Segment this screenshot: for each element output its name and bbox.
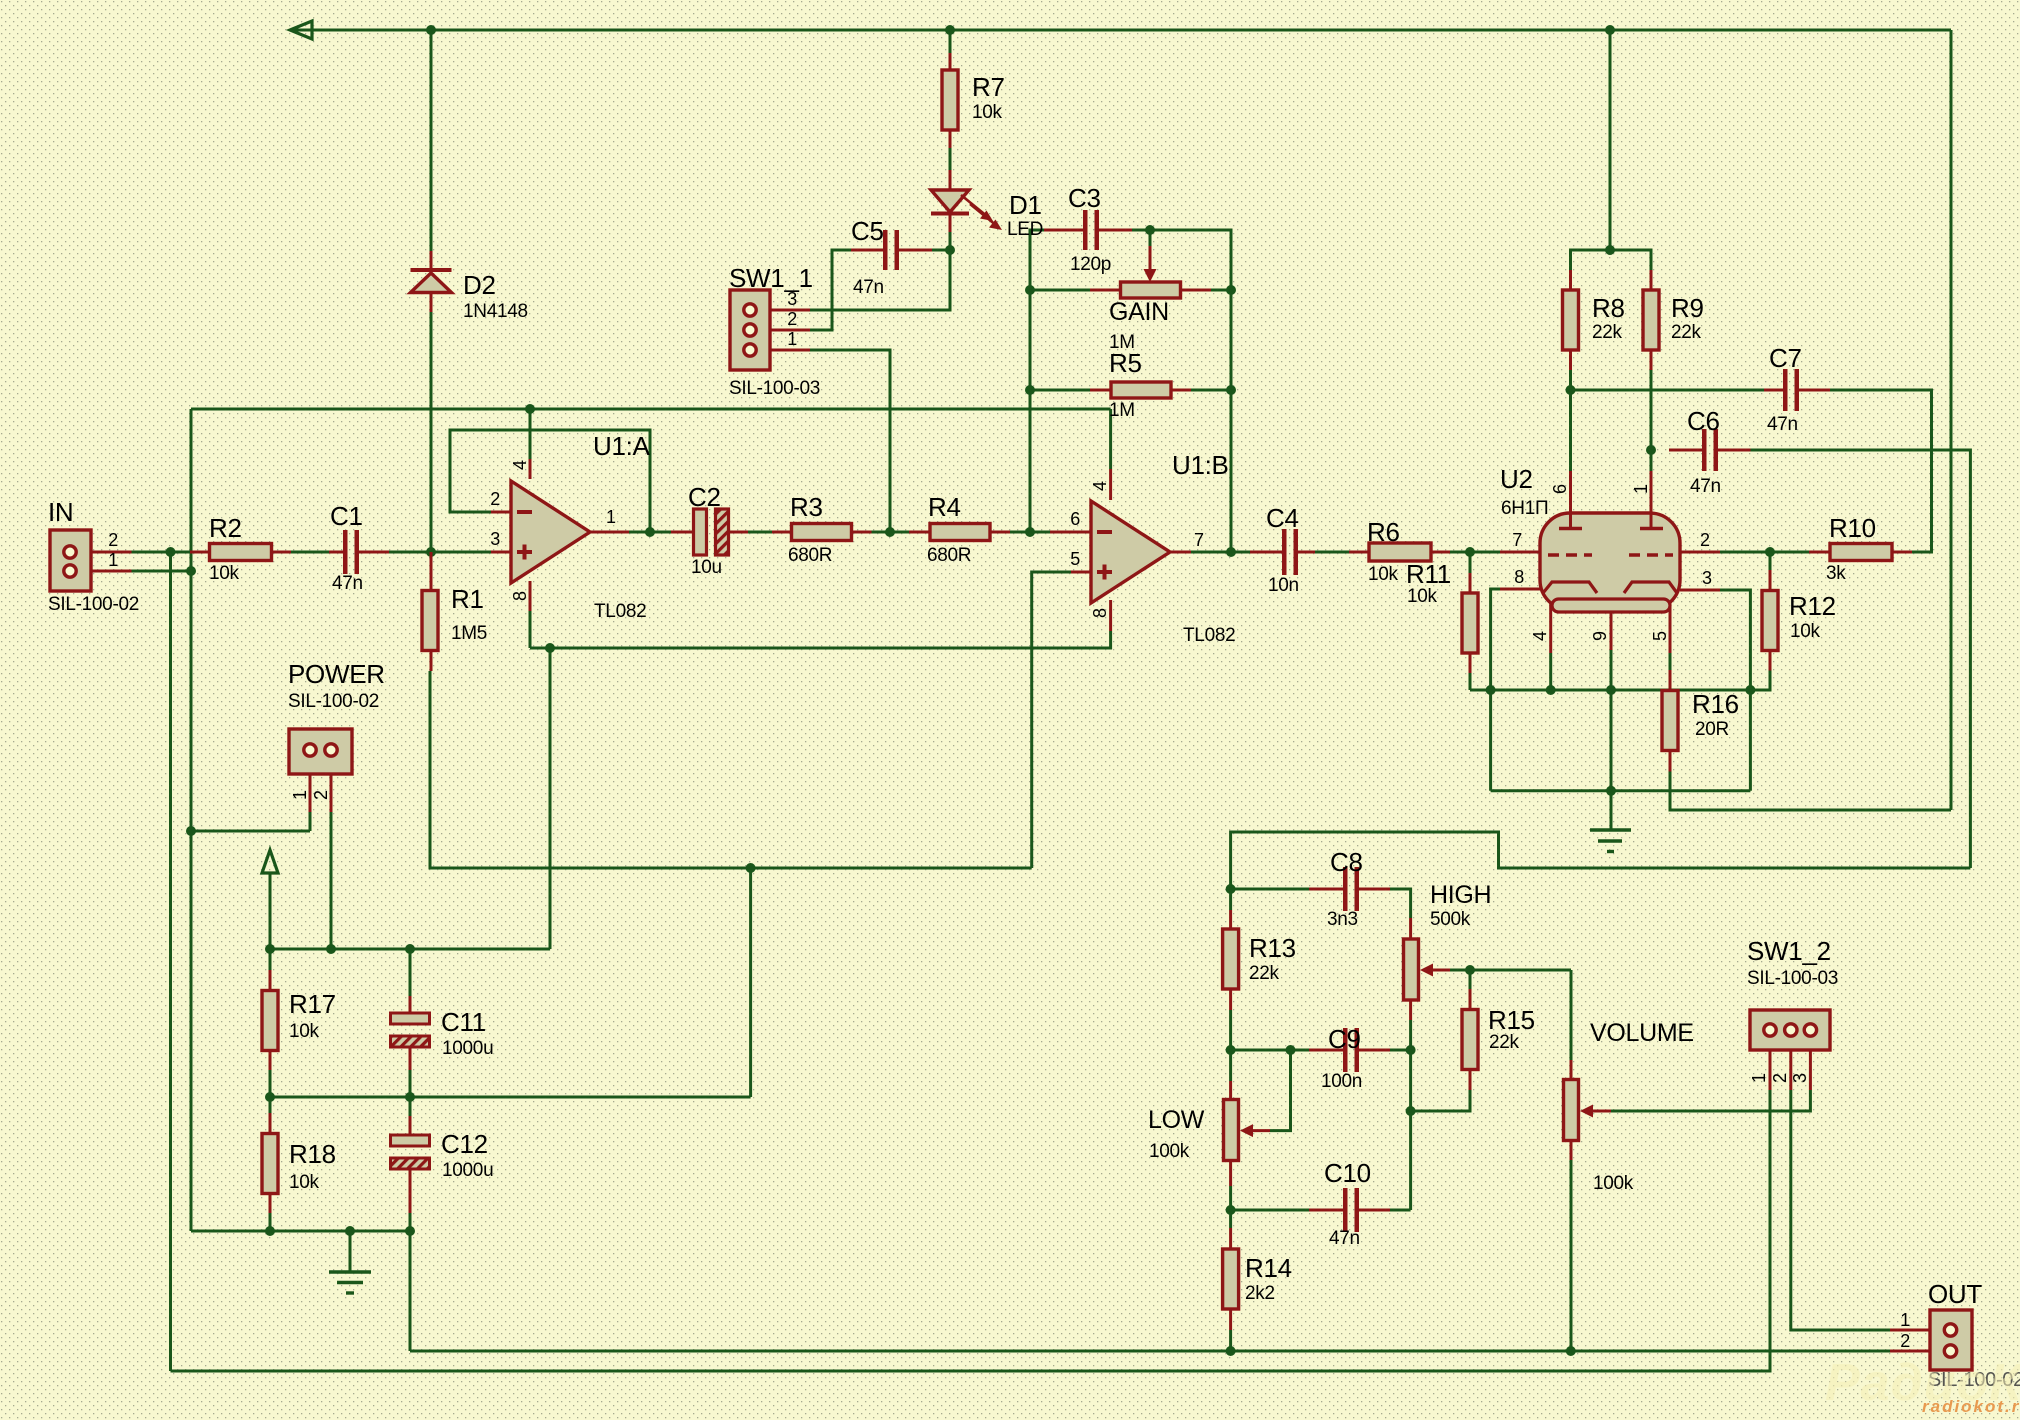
label C6 bbox=[1687, 406, 1720, 436]
svg-text:9: 9 bbox=[1590, 631, 1610, 641]
wire R7 top stub bbox=[949, 30, 952, 53]
wire R8 bottom to anode node bbox=[1569, 370, 1572, 471]
R5 pins bbox=[1090, 389, 1191, 392]
pin number U1B-6 bbox=[1070, 509, 1080, 529]
wire rail B bottom bbox=[171, 1090, 1771, 1371]
svg-text:SIL-100-02: SIL-100-02 bbox=[288, 691, 379, 712]
U1A input pins bbox=[491, 512, 511, 552]
svg-text:22k: 22k bbox=[1592, 322, 1623, 343]
wire R12 top stub bbox=[1769, 552, 1772, 570]
label U1:A bbox=[593, 431, 651, 461]
diode D2 1N4148 bbox=[411, 270, 452, 293]
GAIN pins bbox=[1090, 289, 1211, 292]
svg-text:R10: R10 bbox=[1829, 513, 1876, 543]
capacitor C12 (polarised) bbox=[391, 1135, 430, 1169]
wire bias bottom y1097 bbox=[270, 1096, 751, 1099]
wire R18 top stub bbox=[269, 1097, 272, 1113]
value R1 1M5 bbox=[451, 623, 487, 644]
svg-text:7: 7 bbox=[1512, 530, 1522, 550]
svg-text:10u: 10u bbox=[691, 557, 722, 578]
tube grid pins bbox=[1571, 471, 1652, 527]
svg-text:3: 3 bbox=[787, 289, 797, 309]
label IN package bbox=[48, 594, 139, 615]
wire R5 right stub bbox=[1191, 389, 1231, 392]
svg-text:1000u: 1000u bbox=[442, 1038, 493, 1059]
svg-text:C2: C2 bbox=[688, 482, 721, 512]
svg-text:1N4148: 1N4148 bbox=[463, 301, 528, 322]
value LOW 100k bbox=[1149, 1141, 1190, 1162]
label R2 bbox=[209, 513, 242, 543]
wire C9 right bbox=[1390, 1049, 1411, 1052]
label R16 bbox=[1692, 689, 1739, 719]
resistor R18 bbox=[262, 1134, 278, 1194]
svg-text:SIL-100-02: SIL-100-02 bbox=[48, 594, 139, 615]
resistor R1 bbox=[422, 591, 438, 651]
wire GAIN left stub bbox=[1030, 289, 1090, 292]
svg-text:2k2: 2k2 bbox=[1245, 1283, 1275, 1304]
pin number SW1_2-1 bbox=[1749, 1073, 1769, 1083]
label SW1_2 bbox=[1747, 936, 1831, 966]
capacitor C8 bbox=[1343, 867, 1359, 911]
wire R12 bottom bbox=[1750, 671, 1770, 691]
potentiometer GAIN bbox=[1121, 269, 1181, 298]
svg-text:D2: D2 bbox=[463, 270, 496, 300]
wire R14 bottom stub bbox=[1229, 1330, 1232, 1351]
value R13 22k bbox=[1249, 963, 1280, 984]
C3 pins bbox=[1044, 229, 1132, 232]
label R17 bbox=[289, 989, 336, 1019]
wire tube pin8 loop bbox=[1491, 589, 1500, 791]
wire power ground rail y1231 bbox=[191, 1230, 410, 1233]
svg-text:OUT: OUT bbox=[1928, 1279, 1982, 1309]
value C12 1000u bbox=[442, 1160, 493, 1181]
wire R14 top stub bbox=[1229, 1210, 1232, 1228]
C8 pins bbox=[1309, 888, 1390, 891]
vacuum tube U2 6N1P bbox=[1540, 513, 1680, 612]
U1B input pins bbox=[1050, 532, 1091, 572]
SW1_2 pin stubs bbox=[1770, 1036, 1810, 1090]
svg-text:1000u: 1000u bbox=[442, 1160, 493, 1181]
D1 pins bbox=[949, 170, 952, 232]
wire V+ top rail bbox=[290, 29, 1951, 32]
wire POWER pin1 hook bbox=[191, 830, 310, 833]
wire cathode rail y690 bbox=[1470, 689, 1750, 692]
svg-text:R13: R13 bbox=[1249, 933, 1296, 963]
resistor R15 bbox=[1462, 1010, 1478, 1070]
svg-text:8: 8 bbox=[1090, 608, 1110, 618]
capacitor C6 bbox=[1702, 429, 1718, 471]
wire x191 ground drop bbox=[190, 409, 193, 1231]
svg-text:R1: R1 bbox=[451, 584, 484, 614]
label R12 bbox=[1789, 591, 1836, 621]
svg-text:6: 6 bbox=[1070, 509, 1080, 529]
svg-text:1M: 1M bbox=[1109, 400, 1135, 421]
wire x170 signal drop bbox=[169, 552, 172, 1371]
wire POWER pin1 stub v bbox=[309, 812, 312, 831]
wire R4 to pin6 node bbox=[1010, 531, 1030, 534]
wire R17 bottom stub bbox=[269, 1070, 272, 1097]
wire ground1 stem bbox=[349, 1231, 352, 1271]
R15 pins bbox=[1469, 989, 1472, 1090]
value D2 1N4148 bbox=[463, 301, 528, 322]
value C7 47n bbox=[1767, 414, 1798, 435]
label C3 bbox=[1068, 183, 1101, 213]
svg-text:radiokot.ru: radiokot.ru bbox=[1922, 1397, 2020, 1416]
wire anode node y390 to C7 bbox=[1571, 389, 1765, 392]
svg-text:680R: 680R bbox=[927, 545, 971, 566]
wire C12 bottom stub bbox=[409, 1213, 412, 1231]
svg-text:2: 2 bbox=[490, 489, 500, 509]
wire supply node y949 bbox=[270, 948, 550, 951]
label R13 bbox=[1249, 933, 1296, 963]
svg-text:680R: 680R bbox=[788, 545, 832, 566]
wire x410 to rail A bbox=[409, 1231, 412, 1351]
svg-text:10k: 10k bbox=[1407, 586, 1438, 607]
pin number U1B-7 bbox=[1194, 530, 1204, 550]
pin number U2-2 bbox=[1700, 530, 1710, 550]
value R2 10k bbox=[209, 563, 240, 584]
label C2 bbox=[688, 482, 721, 512]
U1B pin8 stub bbox=[1109, 600, 1112, 631]
wire U1B pin5 bias bbox=[1032, 572, 1071, 868]
svg-text:VOLUME: VOLUME bbox=[1590, 1019, 1694, 1047]
svg-text:20R: 20R bbox=[1695, 719, 1729, 740]
label C5 bbox=[851, 216, 884, 246]
R13 pins bbox=[1229, 910, 1232, 1010]
svg-text:C12: C12 bbox=[441, 1129, 488, 1159]
svg-text:SIL-100-03: SIL-100-03 bbox=[1747, 968, 1838, 989]
wire OUT pin2 rail bbox=[1770, 1350, 1890, 1353]
svg-text:U2: U2 bbox=[1500, 464, 1533, 494]
pin number U2-8 bbox=[1514, 567, 1524, 587]
wire main input y552 bbox=[132, 551, 171, 554]
wire U1B pin4 drop bbox=[1109, 409, 1112, 469]
svg-text:6: 6 bbox=[1550, 484, 1570, 494]
svg-text:U1:B: U1:B bbox=[1172, 450, 1229, 480]
pin number SW1_1-3 bbox=[787, 289, 797, 309]
wire bias mid drop x750 bbox=[749, 868, 752, 1097]
connector SW1_1 SIL-100-03 bbox=[730, 290, 770, 370]
label R8 bbox=[1592, 293, 1625, 323]
R12 pins bbox=[1769, 570, 1772, 671]
R6 pins bbox=[1349, 551, 1450, 554]
svg-text:8: 8 bbox=[1514, 567, 1524, 587]
svg-text:C9: C9 bbox=[1328, 1024, 1361, 1054]
label GAIN bbox=[1109, 298, 1169, 326]
C6 pins bbox=[1669, 449, 1751, 452]
svg-text:2: 2 bbox=[108, 530, 118, 550]
wire x1750 link 690-790 bbox=[1749, 690, 1752, 791]
label C10 bbox=[1324, 1158, 1371, 1188]
value HIGH 500k bbox=[1430, 909, 1471, 930]
resistor R12 bbox=[1762, 591, 1778, 651]
ground (tube cathode) bbox=[1590, 830, 1631, 852]
svg-text:R16: R16 bbox=[1692, 689, 1739, 719]
pin number U1A-3 bbox=[490, 529, 500, 549]
wire C11 bottom stub bbox=[409, 1070, 412, 1097]
resistor R11 bbox=[1462, 593, 1478, 653]
C10 pins bbox=[1309, 1209, 1390, 1212]
wire GAIN right stub bbox=[1211, 289, 1231, 292]
resistor R17 bbox=[262, 991, 278, 1051]
capacitor C3 bbox=[1083, 210, 1099, 250]
svg-text:10k: 10k bbox=[209, 563, 240, 584]
label U2 bbox=[1500, 464, 1533, 494]
U1A pin4 stub bbox=[529, 459, 532, 479]
resistor R5 bbox=[1111, 382, 1171, 398]
potentiometer HIGH bbox=[1404, 939, 1434, 1000]
label POWER bbox=[288, 659, 385, 689]
label R14 bbox=[1245, 1253, 1292, 1283]
D2 pins bbox=[430, 251, 433, 312]
wire VOLUME wiper line bbox=[1611, 1090, 1810, 1111]
svg-text:C11: C11 bbox=[441, 1007, 486, 1037]
potentiometer LOW bbox=[1224, 1100, 1254, 1161]
wire pin6 stub link bbox=[1030, 531, 1050, 534]
wire R6 to R11 node bbox=[1450, 551, 1500, 554]
svg-text:3: 3 bbox=[490, 529, 500, 549]
value C6 47n bbox=[1690, 476, 1721, 497]
wire R13 bottom stub bbox=[1229, 1010, 1232, 1050]
svg-text:R4: R4 bbox=[928, 492, 961, 522]
svg-text:3n3: 3n3 bbox=[1327, 909, 1358, 930]
svg-text:C6: C6 bbox=[1687, 406, 1720, 436]
wire C10 right hook bbox=[1390, 1209, 1411, 1212]
label R11 bbox=[1406, 559, 1451, 589]
resistor R9 bbox=[1643, 290, 1659, 350]
wire SW1_1 pin2 to C5 bbox=[810, 250, 851, 330]
pin number U1A-1 bbox=[606, 507, 616, 527]
R18 pins bbox=[269, 1113, 272, 1213]
capacitor C9 bbox=[1343, 1028, 1359, 1072]
wire C6 line y450 bbox=[1669, 449, 1703, 452]
wire U1A pin4 up bbox=[529, 409, 532, 459]
wire U1A out to C2 bbox=[629, 531, 671, 534]
label C4 bbox=[1266, 503, 1299, 533]
capacitor C2 (polarised) bbox=[694, 509, 729, 555]
resistor R10 bbox=[1830, 544, 1892, 561]
svg-text:7: 7 bbox=[1194, 530, 1204, 550]
pin number IN-2 bbox=[108, 530, 118, 550]
resistor R14 bbox=[1223, 1249, 1239, 1309]
wire rail A bottom bbox=[410, 1350, 1890, 1353]
value C9 100n bbox=[1321, 1071, 1362, 1092]
C4 pins bbox=[1250, 551, 1315, 554]
label U1:B bbox=[1172, 450, 1229, 480]
svg-text:5: 5 bbox=[1650, 631, 1670, 641]
wire C2-R3 link bbox=[748, 531, 772, 534]
svg-text:8: 8 bbox=[510, 591, 530, 601]
value R5 1M bbox=[1109, 400, 1135, 421]
wire x550 V+ drop bbox=[549, 648, 552, 949]
pin number SW1_1-1 bbox=[787, 329, 797, 349]
value R17 10k bbox=[289, 1021, 320, 1042]
svg-text:47n: 47n bbox=[1767, 414, 1798, 435]
label R7 bbox=[972, 72, 1005, 102]
R10 pins bbox=[1809, 551, 1912, 554]
svg-text:10k: 10k bbox=[972, 102, 1003, 123]
label C7 bbox=[1769, 343, 1802, 373]
wire tube pin2 to R10 bbox=[1720, 551, 1809, 554]
label R3 bbox=[790, 492, 823, 522]
svg-text:C5: C5 bbox=[851, 216, 884, 246]
svg-text:D1: D1 bbox=[1009, 190, 1042, 220]
value C10 47n bbox=[1329, 1228, 1360, 1249]
value R14 2k2 bbox=[1245, 1283, 1275, 1304]
wire SW1_1 pin3 to LED node bbox=[810, 252, 950, 310]
wire D2 top (x431) bbox=[430, 30, 433, 251]
label POWER package bbox=[288, 691, 379, 712]
wire U1B out to C4 bbox=[1191, 551, 1250, 554]
svg-text:U1:A: U1:A bbox=[593, 431, 651, 461]
wire pin8 rail y648 bbox=[530, 631, 1111, 648]
op-amp U1:A bbox=[511, 481, 590, 583]
label R1 bbox=[451, 584, 484, 614]
svg-text:R12: R12 bbox=[1789, 591, 1836, 621]
svg-text:3: 3 bbox=[1790, 1073, 1810, 1083]
pin number IN-1 bbox=[108, 550, 118, 570]
svg-text:47n: 47n bbox=[1690, 476, 1721, 497]
svg-text:R2: R2 bbox=[209, 513, 242, 543]
connector J-IN SIL-100-02 bbox=[50, 530, 91, 591]
svg-text:SW1_1: SW1_1 bbox=[729, 263, 813, 293]
svg-text:1: 1 bbox=[1900, 1310, 1910, 1330]
pin number U1A-4 bbox=[510, 460, 530, 470]
svg-text:LED: LED bbox=[1007, 219, 1043, 240]
svg-text:POWER: POWER bbox=[288, 659, 385, 689]
svg-text:R8: R8 bbox=[1592, 293, 1625, 323]
wire HIGH wiper line bbox=[1450, 969, 1571, 972]
value R18 10k bbox=[289, 1172, 320, 1193]
value C3 120p bbox=[1070, 254, 1111, 275]
svg-text:47n: 47n bbox=[332, 573, 363, 594]
pin number OUT-1 bbox=[1900, 1310, 1910, 1330]
svg-text:SIL-100-03: SIL-100-03 bbox=[729, 378, 820, 399]
label LOW bbox=[1148, 1106, 1205, 1134]
U1A out pin bbox=[589, 531, 629, 534]
value R8 22k bbox=[1592, 322, 1623, 343]
pin number U2-5 bbox=[1650, 631, 1670, 641]
wire U1A feedback loop bbox=[450, 430, 650, 532]
svg-text:2: 2 bbox=[1770, 1073, 1790, 1083]
svg-text:2: 2 bbox=[1700, 530, 1710, 550]
label C9 bbox=[1328, 1024, 1361, 1054]
R16 pins bbox=[1669, 670, 1672, 772]
resistor R6 bbox=[1369, 543, 1431, 561]
label D1 bbox=[1009, 190, 1042, 220]
svg-text:2: 2 bbox=[311, 790, 331, 800]
value D1 LED bbox=[1007, 219, 1043, 240]
svg-text:IN: IN bbox=[48, 497, 73, 527]
label R4 bbox=[928, 492, 961, 522]
svg-text:C8: C8 bbox=[1330, 847, 1363, 877]
R9 pins bbox=[1650, 270, 1653, 370]
wire C8 left bbox=[1231, 888, 1309, 891]
pin number POWER-1 bbox=[290, 790, 310, 800]
label IN bbox=[48, 497, 73, 527]
pin number U1B-5 bbox=[1070, 549, 1080, 569]
wire wiper node to x1231 bbox=[1150, 230, 1231, 552]
resistor R16 bbox=[1662, 691, 1678, 751]
watermark big bbox=[1825, 1354, 2020, 1412]
wire node431 to pin3 bbox=[431, 551, 491, 554]
wire R10 right bbox=[1892, 551, 1912, 554]
value C5 47n bbox=[853, 277, 884, 298]
svg-text:4: 4 bbox=[1530, 631, 1550, 641]
tube pin5 stub bbox=[1669, 592, 1672, 653]
label R10 bbox=[1829, 513, 1876, 543]
wire SW1_1 pin1 to R3R4 node bbox=[810, 350, 890, 532]
LOW wiper stub bbox=[1253, 1129, 1270, 1132]
svg-text:C4: C4 bbox=[1266, 503, 1299, 533]
OUT pin stubs bbox=[1890, 1330, 1944, 1351]
svg-text:2: 2 bbox=[1900, 1331, 1910, 1351]
svg-text:1: 1 bbox=[1631, 484, 1651, 494]
svg-text:100k: 100k bbox=[1149, 1141, 1190, 1162]
wire LOW top stub bbox=[1229, 1050, 1232, 1081]
svg-text:R6: R6 bbox=[1367, 517, 1400, 547]
label R15 bbox=[1488, 1005, 1535, 1035]
value GAIN 1M bbox=[1109, 332, 1135, 353]
svg-text:R9: R9 bbox=[1671, 293, 1704, 323]
wire R16 bottom to x1951 bbox=[1670, 772, 1951, 811]
U1B out pin bbox=[1171, 551, 1191, 554]
svg-text:47n: 47n bbox=[1329, 1228, 1360, 1249]
pin number U2-7 bbox=[1512, 530, 1522, 550]
watermark radiokot bbox=[1922, 1397, 2020, 1416]
R14 pins bbox=[1229, 1228, 1232, 1330]
wire tube pin3 loop bbox=[1720, 590, 1750, 690]
label SW1_1 package bbox=[729, 378, 820, 399]
svg-text:3k: 3k bbox=[1826, 563, 1846, 584]
svg-text:R7: R7 bbox=[972, 72, 1005, 102]
wire LOW wiper hook bbox=[1270, 1050, 1291, 1131]
wire IN pin1 to x191 bbox=[132, 570, 192, 573]
svg-text:5: 5 bbox=[1070, 549, 1080, 569]
label OUT bbox=[1928, 1279, 1982, 1309]
value C4 10n bbox=[1268, 575, 1299, 596]
label OUT package bbox=[1928, 1369, 2020, 1391]
R11 pins bbox=[1469, 573, 1472, 673]
wire R18 bottom stub bbox=[269, 1213, 272, 1231]
svg-text:4: 4 bbox=[1090, 481, 1110, 491]
wire C3 right to wiper node bbox=[1132, 229, 1150, 232]
svg-text:1: 1 bbox=[606, 507, 616, 527]
svg-text:22k: 22k bbox=[1671, 322, 1702, 343]
value R7 10k bbox=[972, 102, 1003, 123]
POWER pin stubs bbox=[310, 756, 331, 812]
svg-text:10k: 10k bbox=[289, 1172, 320, 1193]
resistor R4 bbox=[930, 524, 990, 541]
wire R9 bottom to grid node bbox=[1650, 370, 1653, 471]
value R15 22k bbox=[1489, 1032, 1520, 1053]
svg-text:R11: R11 bbox=[1406, 559, 1451, 589]
svg-text:1: 1 bbox=[108, 550, 118, 570]
svg-text:10k: 10k bbox=[1368, 564, 1399, 585]
HIGH wiper stub bbox=[1424, 969, 1450, 972]
wire x1610 V+ drop bbox=[1609, 30, 1612, 250]
svg-text:500k: 500k bbox=[1430, 909, 1471, 930]
svg-text:1M5: 1M5 bbox=[451, 623, 487, 644]
LED D1 bbox=[931, 190, 1002, 230]
label C8 bbox=[1330, 847, 1363, 877]
pin number U1A-8 bbox=[510, 591, 530, 601]
capacitor C11 (polarised) bbox=[391, 1013, 430, 1047]
wire HIGH bottom drop bbox=[1409, 1020, 1412, 1210]
value C11 1000u bbox=[442, 1038, 493, 1059]
R2 pins bbox=[190, 551, 291, 554]
C7 pins bbox=[1764, 389, 1830, 392]
